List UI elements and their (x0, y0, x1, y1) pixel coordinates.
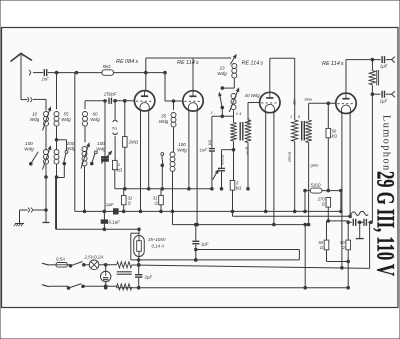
svg-text:5kΩ: 5kΩ (103, 64, 112, 69)
wire filament V3 a (264, 112, 267, 212)
capacitor C11 0.1uF (101, 210, 107, 231)
svg-text:55: 55 (63, 112, 69, 117)
resistor R11 3 kohm (230, 181, 235, 191)
coil L10 40 Wdg (229, 89, 238, 113)
label 5 kohm (103, 64, 112, 69)
svg-text:35~105V: 35~105V (148, 237, 167, 242)
svg-text:Wdg: Wdg (61, 117, 71, 122)
label 270 ohm (317, 197, 326, 207)
wire (83, 285, 117, 288)
label 35 Wdg (159, 114, 169, 125)
label 31 ohm b (153, 196, 158, 206)
label 1-4 (211, 111, 242, 116)
wire (347, 250, 350, 289)
coil L8 100 Wdg (170, 152, 175, 171)
switch S1 (30, 152, 39, 165)
resistor R9 31 ohm (121, 189, 126, 205)
capacitor C3 250pF (109, 98, 111, 104)
coil L1 10 Wdg (43, 108, 51, 131)
label braun (220, 155, 225, 166)
squiggle (350, 211, 368, 216)
svg-text:kΩ: kΩ (332, 134, 338, 139)
wire grid V4 feed (309, 102, 336, 120)
label 100 Wdg b (96, 141, 106, 152)
svg-text:10: 10 (32, 112, 38, 117)
label gruen (245, 147, 250, 156)
bus B10 (56, 177, 141, 231)
label rot (208, 140, 213, 146)
switch S7 (69, 262, 85, 268)
svg-text:35: 35 (161, 114, 167, 119)
resistor R5 510 ohm (304, 188, 343, 193)
label 0.1uF (109, 220, 121, 225)
wire (137, 257, 140, 274)
capacitor C9 (364, 219, 366, 226)
wire loop corner (195, 248, 300, 260)
coil L2 55 Wdg (54, 73, 59, 127)
svg-text:1µF: 1µF (380, 99, 388, 104)
svg-text:Wdg: Wdg (177, 148, 187, 153)
label 1uF d (201, 242, 209, 247)
label 2uF b (144, 275, 153, 280)
mains stub a (42, 263, 56, 265)
svg-text:kΩ: kΩ (236, 186, 242, 191)
label 23 Wdg (217, 66, 227, 77)
capacitor C12 1uF (192, 223, 199, 261)
wire (46, 126, 57, 149)
bus B13 (132, 222, 370, 268)
capacitor C5 (218, 168, 225, 170)
wire (164, 73, 166, 101)
label gruen b (311, 163, 320, 168)
coil L9 23 Wdg (232, 64, 237, 79)
svg-text:1 -: 1 - (211, 111, 216, 115)
coil L5 60 Wdg (83, 101, 88, 126)
wire rot drop (211, 116, 213, 148)
transformer T1 core (240, 122, 243, 141)
wire (233, 110, 235, 122)
svg-text:RE 084 s: RE 084 s (116, 59, 138, 65)
wire center tap (359, 222, 361, 238)
svg-text:100: 100 (178, 142, 186, 147)
wire filament V1 b (147, 111, 150, 191)
transformer T3 core (117, 272, 132, 274)
wire (114, 136, 116, 160)
wire (114, 100, 117, 120)
fuse F1 0.5A (56, 263, 67, 268)
node (45, 209, 48, 212)
wire (221, 108, 224, 118)
arrester 7A (113, 120, 118, 135)
connector output mid (386, 91, 395, 97)
svg-text:0,14 A: 0,14 A (152, 244, 165, 249)
wire (57, 164, 65, 178)
svg-text:1µF: 1µF (201, 242, 209, 247)
variable capacitor C2 (101, 152, 111, 164)
label 200 Wdg (66, 141, 76, 151)
capacitor C1 1nF (44, 69, 46, 76)
wire (67, 264, 70, 266)
connector antenna upper (29, 70, 31, 75)
svg-text:23: 23 (218, 66, 225, 71)
wire (307, 143, 310, 226)
capacitor C7 1uF (372, 91, 384, 98)
switch S3 tap (55, 139, 68, 165)
wire (20, 210, 47, 224)
label 510 ohm (311, 183, 322, 188)
wire (371, 94, 373, 222)
label 50 kohm (332, 129, 338, 139)
wire anode V4 (345, 60, 347, 96)
bus B12 (131, 259, 300, 262)
terminal bar (43, 222, 50, 224)
label 1uF mid (380, 99, 388, 104)
coil L3 100 Wdg (43, 147, 51, 170)
svg-text:510Ω: 510Ω (311, 183, 322, 188)
label terminal 1 (290, 114, 292, 119)
svg-text:Wdg: Wdg (66, 146, 76, 151)
label RE 084 s (116, 59, 138, 65)
wire long drop (74, 73, 76, 211)
wire (116, 286, 118, 287)
transformer T1 primary (230, 123, 236, 142)
wire filament V2 a (188, 111, 191, 190)
transformer T2 secondary (305, 120, 311, 143)
wire top bus2 (270, 57, 295, 59)
bus h4 (173, 223, 309, 226)
wire anode V2 (192, 58, 194, 96)
wire (104, 282, 107, 288)
bus B14 (104, 286, 348, 289)
label 40 Wdg (245, 93, 261, 98)
label rot b (292, 100, 297, 106)
svg-text:7A: 7A (112, 126, 117, 131)
svg-text:kΩ: kΩ (117, 168, 123, 173)
wire (233, 141, 235, 181)
bus h3 (233, 215, 351, 217)
transformer T3 winding b (117, 284, 132, 290)
jack J1 (101, 265, 111, 282)
wire anode V1 (145, 58, 147, 96)
label 2 Mohm (128, 140, 139, 145)
wire (294, 58, 296, 120)
bus B11 (131, 233, 139, 260)
switch S8 (67, 284, 84, 290)
tube V3 RE114 (260, 92, 280, 112)
lamp 2.5V 0.2A (89, 260, 99, 270)
wire tie (328, 220, 348, 222)
svg-text:RE 114 s: RE 114 s (242, 61, 264, 67)
label 100 Wdg c (177, 142, 187, 153)
wire (171, 171, 174, 225)
wire antenna tap (33, 99, 46, 110)
capacitor C13 2uF (135, 275, 142, 288)
connector antenna lower (27, 97, 32, 102)
label 0.5A (56, 257, 65, 262)
svg-text:rot: rot (208, 140, 213, 146)
svg-text:Wdg: Wdg (30, 117, 40, 122)
svg-text:RE 114 s: RE 114 s (177, 60, 199, 66)
wire grid V1 (85, 100, 134, 103)
capacitor C6 1uF (382, 56, 384, 63)
svg-text:60: 60 (92, 112, 98, 117)
svg-text:100: 100 (25, 141, 33, 146)
wire filament V4 b (349, 113, 352, 217)
svg-text:1nF: 1nF (200, 148, 208, 153)
wire grid V2 (165, 100, 183, 102)
connector ground lead (28, 208, 33, 213)
wire (211, 151, 214, 190)
tube V1 RE084 (134, 91, 154, 111)
variable tap arrow (230, 55, 236, 65)
capacitor C8 (353, 219, 355, 226)
resistor R1 2 Mohm (123, 100, 128, 148)
svg-text:Wdg: Wdg (24, 147, 34, 152)
label barretter (148, 237, 167, 249)
label braun b (287, 152, 292, 163)
barretter 35-105V (134, 229, 145, 256)
coil L7 35 Wdg (171, 113, 176, 128)
wire filament V3 b (273, 112, 276, 226)
wire tie 50ohm (327, 250, 350, 263)
wire (340, 191, 343, 213)
label RE 114 s (177, 60, 199, 66)
resistor R10 31 ohm (159, 189, 164, 205)
transformer T2 primary (292, 120, 298, 141)
svg-text:blau: blau (305, 97, 313, 102)
wire (368, 221, 372, 224)
transformer T1 secondary (245, 103, 251, 143)
switch S2 (91, 151, 98, 165)
resistor R7 50 ohm (324, 221, 329, 250)
switch S4 (161, 153, 164, 167)
tube V4 RE114 (336, 93, 356, 113)
capacitor C4 1nF (209, 149, 215, 151)
wire (45, 177, 47, 223)
label 1uF top (380, 64, 388, 69)
wire (33, 72, 43, 74)
wire top right (346, 58, 381, 61)
wire (221, 78, 234, 89)
wire (347, 221, 352, 224)
svg-text:1nF: 1nF (42, 77, 50, 82)
svg-text:40 Wdg: 40 Wdg (245, 93, 261, 98)
wire (293, 141, 296, 212)
label 100 Wdg (24, 141, 34, 152)
svg-text:Wdg: Wdg (159, 119, 169, 124)
wire (327, 207, 330, 222)
wire (304, 191, 307, 213)
ground (14, 224, 24, 227)
choke L11 (369, 60, 378, 96)
svg-text:0,1µF: 0,1µF (109, 220, 121, 225)
label 2uF (105, 202, 114, 207)
antenna (11, 54, 33, 100)
wire (327, 138, 330, 192)
label 3 kohm (236, 181, 242, 191)
wire (122, 205, 125, 213)
brand Lumophon (381, 115, 392, 172)
wire (83, 126, 86, 212)
tube V2 RE114 (183, 91, 203, 111)
label 1 kohm (117, 162, 123, 173)
label RE 114 s c (322, 61, 344, 67)
label RE 114 s b (242, 61, 264, 67)
node anode junction (145, 71, 148, 74)
svg-text:1: 1 (118, 162, 120, 167)
label 50 ohm a (318, 240, 323, 250)
label 250pF (103, 92, 117, 97)
bus B8 heater (75, 210, 341, 212)
label lamp (84, 255, 104, 260)
wire (231, 190, 234, 216)
coil L4 200 Wdg (54, 150, 59, 165)
switch S6 pickup (213, 170, 218, 180)
label 10 Wdg (30, 112, 40, 123)
model 29 G III 110 V (372, 171, 399, 276)
wire (84, 264, 90, 266)
wire grid V3 (248, 102, 260, 104)
svg-text:braun: braun (220, 155, 225, 166)
label blau (246, 118, 251, 126)
wire filament V1 a (139, 111, 142, 213)
wire filament V4 a (341, 113, 344, 269)
wire (220, 172, 223, 190)
wire (114, 71, 167, 74)
resistor R4 50 kohm (326, 103, 331, 137)
svg-text:RE 114 s: RE 114 s (322, 61, 344, 67)
svg-text:Lumophon: Lumophon (381, 115, 392, 172)
svg-text:1: 1 (290, 114, 292, 119)
wire braun drop (222, 148, 235, 167)
wire (247, 143, 250, 191)
svg-text:250pF: 250pF (103, 92, 117, 97)
svg-text:Wdg: Wdg (90, 117, 100, 122)
coil L6 100 Wdg (81, 144, 89, 169)
wire (99, 264, 117, 267)
label 60 Wdg (90, 112, 100, 123)
wire anode V3 (269, 58, 271, 97)
resistor R2 1 kohm (113, 160, 118, 169)
label 31 ohm a (128, 196, 133, 206)
label terminal 9 (298, 114, 301, 119)
wire (160, 205, 163, 213)
wire (161, 165, 164, 190)
wire (172, 100, 175, 152)
capacitor C10 2uF (114, 209, 119, 214)
wire antenna bus (48, 71, 102, 74)
svg-text:1µF: 1µF (380, 64, 388, 69)
wire (114, 170, 116, 189)
switch S5 blade (219, 93, 224, 109)
transformer T2 core (302, 121, 305, 141)
wire (124, 147, 127, 190)
svg-text:0,5A: 0,5A (56, 257, 65, 262)
svg-text:grün: grün (311, 163, 320, 168)
svg-text:Wdg: Wdg (217, 71, 227, 76)
terminal bar b (356, 238, 364, 240)
wire (45, 164, 58, 178)
label 7A (112, 126, 117, 131)
mains stub b (42, 285, 68, 287)
wire (357, 221, 363, 224)
label 1nF b (200, 148, 208, 153)
label 55 Wdg (61, 112, 71, 123)
svg-text:2µF: 2µF (105, 202, 114, 207)
bus B9 heater (115, 188, 212, 190)
transformer T3 winding a (117, 262, 132, 268)
svg-text:2,5V,0,2A: 2,5V,0,2A (84, 255, 104, 260)
resistor R8 50 ohm (346, 221, 351, 250)
wire (212, 115, 234, 117)
wire (304, 225, 307, 289)
label blau b (305, 97, 313, 102)
resistor R6 270 ohm (326, 198, 331, 208)
connector output top (386, 57, 395, 63)
svg-text:braun: braun (287, 152, 292, 163)
label 1nF (42, 77, 50, 82)
svg-text:100: 100 (97, 141, 105, 146)
svg-text:1·4: 1·4 (236, 112, 242, 116)
wire (56, 177, 58, 229)
svg-text:29 G III, 110 V: 29 G III, 110 V (372, 171, 399, 276)
svg-text:2µF: 2µF (144, 275, 153, 280)
label 50 ohm b (340, 240, 345, 250)
resistor R3 5 kohm (102, 70, 114, 76)
svg-text:2MΩ: 2MΩ (128, 140, 139, 145)
wire filament V2 b (196, 111, 199, 226)
wire top bus (146, 57, 231, 59)
wire (104, 100, 107, 212)
